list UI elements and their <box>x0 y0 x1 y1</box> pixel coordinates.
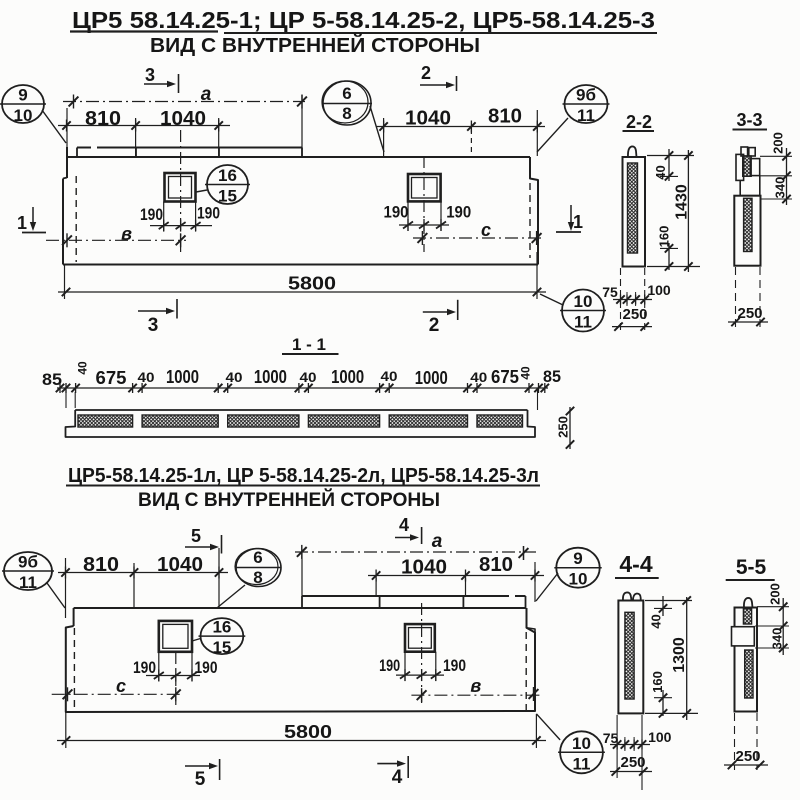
svg-text:11: 11 <box>573 754 591 773</box>
svg-text:810: 810 <box>488 106 522 128</box>
svg-text:250: 250 <box>737 305 762 322</box>
svg-text:11: 11 <box>574 313 592 332</box>
svg-text:190: 190 <box>197 204 220 223</box>
svg-text:6: 6 <box>342 84 351 103</box>
svg-text:85: 85 <box>42 370 62 389</box>
svg-text:10: 10 <box>14 106 33 125</box>
svg-text:810: 810 <box>83 554 119 576</box>
svg-text:a: a <box>432 531 443 552</box>
svg-text:ВИД С ВНУТРЕННЕЙ СТОРОНЫ: ВИД С ВНУТРЕННЕЙ СТОРОНЫ <box>138 489 440 511</box>
svg-text:1300: 1300 <box>671 637 688 673</box>
svg-text:250: 250 <box>622 306 647 323</box>
svg-text:5800: 5800 <box>288 274 336 294</box>
svg-text:в: в <box>470 676 481 696</box>
svg-text:11: 11 <box>19 573 37 592</box>
svg-text:1 - 1: 1 - 1 <box>292 335 326 354</box>
svg-text:4: 4 <box>392 767 403 788</box>
svg-text:810: 810 <box>479 554 513 576</box>
svg-text:5800: 5800 <box>284 722 332 742</box>
svg-text:85: 85 <box>543 367 561 386</box>
svg-text:190: 190 <box>379 656 400 675</box>
svg-text:75: 75 <box>603 730 619 746</box>
svg-text:1000: 1000 <box>254 367 287 387</box>
svg-text:16: 16 <box>212 618 231 637</box>
svg-text:250: 250 <box>735 748 760 765</box>
svg-text:ЦР5-58.14.25-1л, ЦР 5-58.14.25: ЦР5-58.14.25-1л, ЦР 5-58.14.25-2л, ЦР5-5… <box>68 465 539 487</box>
svg-text:160: 160 <box>650 671 665 693</box>
svg-text:1040: 1040 <box>160 108 206 130</box>
svg-text:675: 675 <box>96 368 127 388</box>
svg-text:3-3: 3-3 <box>736 110 762 130</box>
svg-text:1: 1 <box>17 213 27 233</box>
svg-text:1040: 1040 <box>405 108 451 130</box>
svg-text:40: 40 <box>138 369 155 385</box>
svg-text:10: 10 <box>572 734 591 753</box>
svg-text:100: 100 <box>648 729 672 745</box>
svg-text:16: 16 <box>218 166 237 185</box>
svg-text:9: 9 <box>18 86 27 105</box>
svg-text:810: 810 <box>85 108 121 130</box>
svg-text:3: 3 <box>145 65 155 85</box>
svg-text:2-2: 2-2 <box>626 112 652 132</box>
svg-text:5: 5 <box>195 769 206 790</box>
svg-text:40: 40 <box>76 361 90 375</box>
svg-text:190: 190 <box>140 205 163 224</box>
svg-text:8: 8 <box>342 104 351 123</box>
svg-text:40: 40 <box>300 369 317 385</box>
svg-text:8: 8 <box>253 568 262 587</box>
svg-text:1: 1 <box>573 212 583 232</box>
svg-text:100: 100 <box>647 282 671 298</box>
svg-text:1000: 1000 <box>166 367 199 387</box>
svg-text:40: 40 <box>226 369 243 385</box>
svg-text:5: 5 <box>191 526 201 546</box>
svg-text:200: 200 <box>771 132 786 154</box>
svg-text:190: 190 <box>133 658 156 677</box>
svg-text:200: 200 <box>768 583 783 605</box>
svg-text:675: 675 <box>491 367 519 387</box>
svg-text:4-4: 4-4 <box>619 551 652 577</box>
svg-text:ВИД С ВНУТРЕННЕЙ СТОРОНЫ: ВИД С ВНУТРЕННЕЙ СТОРОНЫ <box>150 33 480 57</box>
svg-text:40: 40 <box>649 614 664 628</box>
svg-text:2: 2 <box>429 315 440 336</box>
svg-text:1040: 1040 <box>401 557 447 579</box>
svg-text:2: 2 <box>421 63 431 83</box>
svg-text:9: 9 <box>573 549 582 568</box>
svg-text:1040: 1040 <box>157 554 203 576</box>
svg-text:9б: 9б <box>18 553 38 572</box>
svg-text:4: 4 <box>399 515 409 535</box>
svg-text:190: 190 <box>443 656 466 675</box>
svg-text:40: 40 <box>653 165 668 179</box>
svg-text:40: 40 <box>519 366 533 380</box>
svg-text:75: 75 <box>602 284 618 300</box>
svg-text:15: 15 <box>218 187 237 206</box>
svg-text:c: c <box>116 676 126 696</box>
svg-text:40: 40 <box>470 369 487 385</box>
svg-text:190: 190 <box>384 203 409 222</box>
svg-text:ЦР5 58.14.25-1; ЦР 5-58.14.25-: ЦР5 58.14.25-1; ЦР 5-58.14.25-2, ЦР5-58.… <box>72 7 655 33</box>
svg-text:10: 10 <box>574 292 593 311</box>
svg-text:3: 3 <box>148 315 159 336</box>
svg-text:1000: 1000 <box>415 368 448 388</box>
svg-text:10: 10 <box>569 570 588 589</box>
svg-text:190: 190 <box>446 203 471 222</box>
svg-text:1000: 1000 <box>331 367 364 387</box>
svg-text:340: 340 <box>773 177 788 199</box>
svg-text:340: 340 <box>770 628 785 650</box>
svg-text:250: 250 <box>556 416 571 438</box>
svg-text:190: 190 <box>195 658 218 677</box>
svg-text:15: 15 <box>212 638 231 657</box>
svg-text:a: a <box>201 84 212 105</box>
svg-text:40: 40 <box>381 368 398 384</box>
svg-text:9б: 9б <box>576 86 596 105</box>
svg-text:1430: 1430 <box>674 184 691 220</box>
svg-text:160: 160 <box>657 226 672 248</box>
svg-text:5-5: 5-5 <box>736 556 767 579</box>
svg-text:в: в <box>121 224 132 244</box>
svg-text:11: 11 <box>577 106 595 125</box>
svg-text:с: с <box>481 220 491 240</box>
svg-text:6: 6 <box>253 548 262 567</box>
